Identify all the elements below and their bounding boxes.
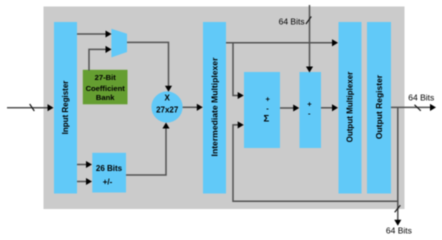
svg-text:Input Register: Input Register [61, 81, 70, 135]
svg-text:64 Bits: 64 Bits [408, 92, 434, 102]
svg-text:27-Bit: 27-Bit [95, 73, 117, 82]
svg-text:64 Bits: 64 Bits [279, 16, 305, 26]
svg-text:Intermediate Multiplexer: Intermediate Multiplexer [210, 57, 220, 157]
svg-text:26 Bits: 26 Bits [96, 164, 123, 173]
svg-text:X: X [165, 94, 171, 103]
svg-text:Output Multiplexer: Output Multiplexer [346, 72, 355, 143]
svg-text:Output Register: Output Register [374, 74, 384, 139]
svg-text:+: + [266, 94, 271, 103]
svg-text:+/-: +/- [103, 177, 113, 186]
svg-text:+: + [307, 99, 312, 108]
svg-text:Σ: Σ [263, 113, 269, 124]
svg-text:27x27: 27x27 [156, 105, 179, 114]
svg-text:64 Bits: 64 Bits [386, 225, 412, 235]
svg-text:Coefficient: Coefficient [86, 84, 126, 93]
svg-text:Bank: Bank [96, 93, 115, 102]
